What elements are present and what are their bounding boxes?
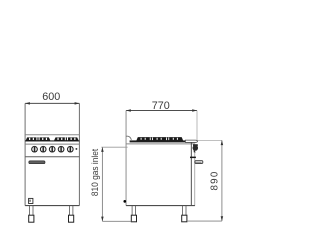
svg-text:810 gas inlet: 810 gas inlet [90,148,101,196]
side trivet band [136,137,183,140]
svg-text:890: 890 [210,171,221,191]
front view outline [25,103,79,205]
dimension 810 line [101,147,104,221]
side front leg [131,206,136,222]
svg-text:600: 600 [42,91,60,103]
front cooktop front rail (solid dark line) [25,140,79,141]
knob 4 [58,146,65,153]
side view bottom line [126,205,195,207]
dimension 890 extension top [198,139,222,141]
front control panel bottom line [25,156,79,158]
side back inner edge (dark) [190,142,192,205]
oven door latch [29,198,33,203]
side cooktop surface thick edge [130,140,186,142]
oven door handle [29,161,45,164]
front control panel top line [25,143,79,145]
back step bracket [190,157,196,159]
door hinge pin (side) [123,200,126,203]
front right leg [69,206,74,223]
dimension 810 extension top [101,146,127,148]
front trivet band group 2 [54,137,79,140]
svg-text:770: 770 [152,100,170,112]
dimension 890 extension bottom / floor right [187,220,222,222]
dimension 600 line [25,102,79,105]
knob 5 [67,146,74,153]
side view front edge / 770 left extension [125,111,127,206]
gas inlet elbow at back [193,144,199,152]
side back leg [182,206,187,222]
side bullnose front profile [126,136,131,140]
gas connection stub [195,161,203,164]
front left leg [29,206,34,223]
knob 3 [49,146,56,153]
side back outer edge (gray) [194,143,196,205]
dimension 810 extension bottom / floor left [102,220,131,222]
knob 2 [40,146,47,153]
dimension 890 line [221,140,224,221]
770 right extension line [196,111,198,141]
pilot indicator dot [75,148,77,150]
front trivet band group 1 [26,137,51,140]
side cooktop back lip tube [185,140,197,142]
front cooktop top edge line [25,134,79,136]
knob 1 [31,146,38,153]
dimension 770 line [126,109,197,112]
side top rail line [126,143,195,145]
